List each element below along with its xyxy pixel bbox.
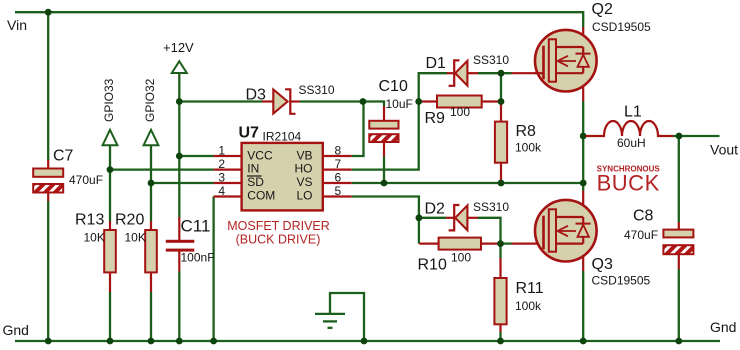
svg-text:SS310: SS310 [473,53,509,67]
svg-text:SD: SD [247,175,264,189]
svg-text:R10: R10 [418,257,447,274]
svg-text:2: 2 [218,157,225,171]
svg-text:8: 8 [335,144,342,158]
svg-text:L1: L1 [624,104,642,121]
svg-text:Gnd: Gnd [710,319,736,335]
svg-text:D3: D3 [246,87,267,104]
svg-text:GPIO33: GPIO33 [102,78,116,122]
svg-text:+12V: +12V [163,40,194,55]
svg-text:GPIO32: GPIO32 [143,78,157,122]
svg-text:MOSFET DRIVER: MOSFET DRIVER [227,219,330,233]
svg-text:R9: R9 [425,110,446,127]
svg-text:10uF: 10uF [386,97,413,111]
svg-text:LO: LO [296,189,312,203]
svg-text:C10: C10 [379,78,408,95]
svg-text:Gnd: Gnd [3,322,29,338]
svg-text:R11: R11 [516,280,544,297]
svg-text:Vin: Vin [7,17,27,33]
svg-text:10K: 10K [125,231,146,245]
svg-text:470uF: 470uF [624,228,658,242]
svg-text:10K: 10K [84,231,105,245]
svg-text:6: 6 [335,171,342,185]
svg-text:Q2: Q2 [592,1,613,18]
svg-text:VS: VS [296,175,312,189]
svg-text:100: 100 [451,251,471,265]
svg-text:100nF: 100nF [181,251,215,265]
svg-text:D2: D2 [425,201,446,218]
svg-text:C7: C7 [53,148,74,165]
svg-text:3: 3 [218,171,225,185]
svg-text:IR2104: IR2104 [263,130,302,144]
svg-text:Q3: Q3 [592,256,613,273]
svg-text:IN: IN [247,162,259,176]
svg-text:R13: R13 [75,212,104,229]
svg-text:Vout: Vout [710,142,738,158]
svg-text:C11: C11 [181,217,211,236]
svg-text:SS310: SS310 [473,200,509,214]
svg-text:470uF: 470uF [69,173,103,187]
svg-text:100: 100 [450,105,470,119]
svg-text:(BUCK DRIVE): (BUCK DRIVE) [236,232,321,246]
svg-text:4: 4 [218,184,225,198]
svg-text:R20: R20 [115,212,144,229]
svg-text:D1: D1 [426,55,447,72]
svg-text:1: 1 [218,144,225,158]
svg-text:C8: C8 [633,208,654,225]
svg-text:VB: VB [296,148,312,162]
svg-text:CSD19505: CSD19505 [592,20,651,34]
svg-text:VCC: VCC [247,148,273,162]
svg-text:R8: R8 [516,123,537,140]
svg-text:60uH: 60uH [617,136,646,150]
svg-text:100k: 100k [515,299,542,313]
svg-text:100k: 100k [515,141,542,155]
svg-text:CSD19505: CSD19505 [592,274,651,288]
svg-text:U7: U7 [239,125,260,142]
svg-text:5: 5 [335,184,342,198]
svg-text:BUCK: BUCK [597,171,660,196]
svg-text:7: 7 [335,157,342,171]
svg-text:COM: COM [247,189,275,203]
svg-text:SS310: SS310 [299,83,335,97]
svg-text:HO: HO [295,162,313,176]
